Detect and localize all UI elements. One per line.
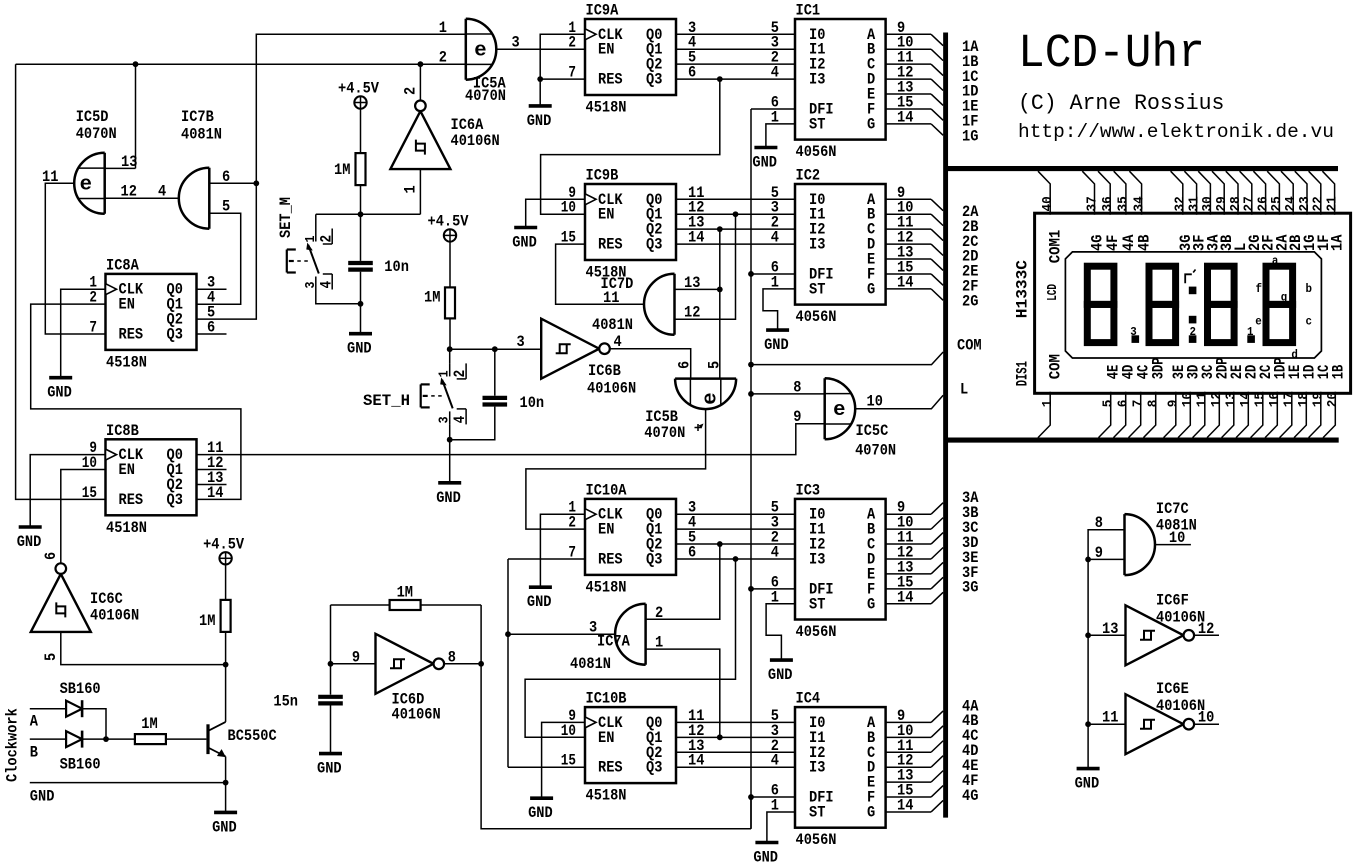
- LCD pin 1 COM bottom wire: [1038, 392, 1050, 438]
- svg-text:GND: GND: [753, 849, 778, 864]
- svg-text:g: g: [1281, 291, 1288, 305]
- LCD top pin 26 wire (2F): [1253, 171, 1265, 215]
- svg-text:17: 17: [1283, 392, 1298, 407]
- svg-text:1G: 1G: [962, 127, 978, 145]
- wire IC7B input 5 to IC8A.Q1: [197, 213, 241, 304]
- wire IC7C inputs tied to gnd chain: [1088, 530, 1124, 769]
- wire IC8A.CLK pin1 to GND: [61, 289, 106, 378]
- LCD decimal point dots: [1132, 335, 1140, 343]
- wire IC10B.CLK to GND: [542, 722, 585, 798]
- svg-text:3: 3: [512, 34, 520, 52]
- IC IC10A 4518N counter box: [585, 499, 676, 575]
- svg-text:11: 11: [1196, 392, 1211, 407]
- svg-text:Q3: Q3: [646, 759, 662, 777]
- svg-text:I3: I3: [809, 71, 825, 89]
- LCD top pin 24 wire (2B): [1281, 171, 1293, 215]
- svg-text:10: 10: [561, 722, 576, 740]
- LCD bottom pin 8 wire (3DP): [1144, 392, 1156, 438]
- svg-text:GND: GND: [436, 489, 461, 507]
- display bus top horizontal: [946, 166, 1338, 171]
- svg-text:G: G: [867, 115, 875, 133]
- svg-text:40106N: 40106N: [392, 706, 441, 724]
- svg-text:SB160: SB160: [60, 680, 101, 698]
- svg-text:Q3: Q3: [646, 550, 662, 568]
- capacitor C2 10n: [494, 349, 496, 396]
- wire IC5C input 9 (from IC8B.Q0 long wire): [796, 423, 825, 425]
- svg-text:6: 6: [676, 361, 694, 369]
- wire IC8B.Q0 pin11 long wire to IC5C.9: [197, 424, 825, 455]
- svg-text:EN: EN: [598, 521, 614, 539]
- ground transistor emitter: [214, 811, 237, 815]
- switch SET_H: [449, 349, 451, 363]
- svg-text:4070N: 4070N: [76, 125, 117, 143]
- junction IC10A.Q2 to IC7A.2: [717, 541, 723, 547]
- svg-text:a: a: [1272, 254, 1279, 268]
- IC6E output stub pin10: [1194, 723, 1219, 725]
- svg-text:GND: GND: [47, 384, 72, 402]
- LCD bottom pin 11 wire (3C): [1193, 392, 1205, 438]
- junction emitter/gnd-row: [223, 780, 229, 786]
- svg-text:4: 4: [771, 64, 779, 82]
- wire IC7A input 1 from IC10B.Q1: [646, 649, 720, 737]
- resistor R3 1M base resistor: [135, 734, 166, 744]
- svg-text:2: 2: [568, 34, 576, 52]
- wire IC5A.1 to IC8A.Q2 vertical: [197, 34, 466, 319]
- junction IC3.DFI: [748, 586, 754, 592]
- LCD top pin 23 wire (1G): [1295, 171, 1307, 215]
- svg-text:RES: RES: [119, 325, 144, 343]
- svg-text:3DP: 3DP: [1150, 357, 1168, 379]
- junction IC9A.Q3 branch to IC9B.EN: [717, 76, 723, 82]
- svg-text:EN: EN: [598, 206, 614, 224]
- wire IC5D input 12 / IC7B output 4: [105, 197, 179, 199]
- svg-text:e: e: [1255, 315, 1262, 329]
- LCD digit 4: [1266, 266, 1293, 304]
- AND gate IC7B 4081N (mirrored): [179, 168, 210, 229]
- wires IC10A.Q to IC3.I: [676, 513, 795, 515]
- svg-text:4070N: 4070N: [644, 424, 685, 442]
- svg-text:IC10B: IC10B: [586, 690, 627, 708]
- Schmitt inverter IC6E 40106N: [1126, 694, 1184, 754]
- svg-text:8: 8: [1095, 514, 1103, 532]
- wire IC9B.RES from IC7D output 11: [556, 244, 644, 304]
- LCD L mark near colon: [1185, 274, 1192, 283]
- LCD top pin 37 wire (4G): [1082, 171, 1094, 215]
- svg-text:I3: I3: [809, 759, 825, 777]
- wire IC5B output to IC10A.EN: [526, 409, 706, 529]
- wire IC10A.Q2 branch to IC7A.2: [646, 544, 720, 619]
- wire IC8B.CLK pin9 to GND: [30, 455, 105, 527]
- svg-text:COM: COM: [957, 337, 982, 355]
- wire IC6A output up: [419, 64, 421, 100]
- LCD bottom pin 12 wire (2DP): [1207, 392, 1219, 438]
- wires IC9A.Q to IC1.I: [676, 33, 795, 35]
- IC IC8A 4518N counter box: [106, 274, 197, 350]
- svg-text:4518N: 4518N: [586, 578, 627, 596]
- svg-text:GND: GND: [527, 593, 552, 611]
- junction IC9B.Q2 to IC7D.13: [717, 226, 723, 232]
- svg-text:22: 22: [1312, 196, 1327, 211]
- svg-text:G: G: [867, 803, 875, 821]
- svg-text:+4.5V: +4.5V: [203, 535, 245, 553]
- svg-text:12: 12: [121, 183, 137, 201]
- svg-text:6: 6: [42, 552, 60, 560]
- svg-text:20: 20: [1326, 392, 1341, 407]
- junction IC6E input: [1085, 721, 1091, 727]
- wire COM from DFI bus to display bus: [751, 352, 943, 365]
- svg-text:Q3: Q3: [167, 325, 183, 343]
- svg-text:IC9B: IC9B: [586, 167, 619, 185]
- svg-text:IC6F: IC6F: [1156, 591, 1189, 609]
- junction collector node: [223, 662, 229, 668]
- LCD colon dots: [1189, 287, 1197, 295]
- wire SET_H to GND: [449, 440, 451, 483]
- svg-text:e: e: [700, 392, 723, 404]
- svg-text:+4.5V: +4.5V: [428, 212, 470, 230]
- svg-text:COM1: COM1: [1046, 230, 1064, 264]
- wire IC9B.Q1 branch to IC7D.12: [675, 214, 736, 319]
- svg-text:12: 12: [1198, 620, 1214, 638]
- LCD display window: [1065, 252, 1321, 358]
- svg-text:ST: ST: [809, 595, 825, 613]
- wire SET_M node row: [316, 213, 421, 215]
- Schmitt inverter IC6D 40106N: [376, 634, 434, 694]
- svg-text:1: 1: [439, 19, 447, 37]
- svg-text:1M: 1M: [141, 715, 157, 733]
- svg-text:L: L: [960, 381, 968, 399]
- LCD bottom pin 14 wire (2D): [1236, 392, 1248, 438]
- junction DFI/IC5C.8: [748, 391, 754, 397]
- junction on net at IC5D.13 branch: [133, 61, 139, 67]
- IC IC4 4056N LCD decoder box: [795, 707, 886, 828]
- wire IC8A.EN pin2 from IC8B.Q3: [31, 304, 241, 499]
- svg-text:12: 12: [684, 304, 700, 322]
- svg-text:e: e: [474, 39, 486, 62]
- svg-text:IC7B: IC7B: [181, 108, 214, 126]
- svg-text:10: 10: [1181, 392, 1196, 407]
- svg-text:13: 13: [1102, 620, 1118, 638]
- junction below cap: [358, 301, 364, 307]
- IC6F output stub pin12: [1194, 634, 1219, 636]
- svg-text:GND: GND: [212, 818, 237, 836]
- svg-text:+4.5V: +4.5V: [338, 80, 380, 98]
- svg-text:2: 2: [1190, 325, 1197, 339]
- svg-text:9: 9: [1095, 544, 1103, 562]
- svg-text:2: 2: [317, 235, 335, 243]
- svg-text:4070N: 4070N: [465, 87, 506, 105]
- svg-text:40: 40: [1041, 196, 1056, 211]
- svg-text:RES: RES: [119, 491, 144, 509]
- wire IC6C input from clockwork transistor collector: [61, 632, 226, 665]
- junction IC6D input: [328, 661, 334, 667]
- wires IC1 outputs to display bus 1A-1G: [886, 33, 932, 35]
- svg-text:1B: 1B: [1329, 365, 1347, 380]
- svg-text:I3: I3: [809, 550, 825, 568]
- svg-text:4: 4: [771, 543, 779, 561]
- svg-text:GND: GND: [528, 804, 553, 822]
- svg-text:7: 7: [568, 543, 576, 561]
- svg-text:IC5D: IC5D: [76, 108, 109, 126]
- svg-text:5: 5: [705, 361, 723, 369]
- svg-text:IC4: IC4: [796, 690, 821, 708]
- svg-text:14: 14: [897, 588, 913, 606]
- ground IC10A CLK: [529, 585, 552, 589]
- wires IC2 outputs to display bus 2A-2G: [886, 198, 932, 200]
- AND gate IC7A 4081N (mirrored): [615, 604, 646, 665]
- svg-text:IC7A: IC7A: [597, 633, 630, 651]
- wire IC3.ST to GND: [766, 604, 795, 660]
- wire IC10A.RES from IC7A output: [508, 558, 585, 560]
- ground unused-gate chain: [1077, 767, 1100, 771]
- wire SET_H node row to IC6B input: [450, 348, 542, 350]
- svg-text:1M: 1M: [424, 289, 440, 307]
- wire IC1.DFI to DFI bus: [751, 108, 795, 110]
- wire IC5A output 3 to IC9A.EN: [496, 48, 585, 50]
- ground IC8A: [49, 376, 72, 380]
- svg-text:IC2: IC2: [796, 167, 821, 185]
- IC IC10B 4518N counter box: [585, 707, 676, 783]
- svg-text:2: 2: [439, 49, 447, 67]
- wire IC5D output 11 to IC8A.RES: [45, 183, 105, 334]
- IC8B.Q2 stub pin13: [197, 483, 227, 485]
- ground IC9B CLK: [514, 226, 537, 230]
- svg-text:4518N: 4518N: [586, 787, 627, 805]
- svg-text:21: 21: [1325, 196, 1340, 211]
- svg-text:1: 1: [1247, 325, 1254, 339]
- svg-text:BC550C: BC550C: [228, 727, 277, 745]
- LCD digit 2: [1149, 266, 1176, 304]
- svg-text:25: 25: [1270, 196, 1285, 211]
- svg-text:5: 5: [222, 198, 230, 216]
- svg-text:5: 5: [1102, 400, 1117, 408]
- junction at IC6A output: [418, 61, 424, 67]
- svg-text:Q3: Q3: [646, 236, 662, 254]
- svg-text:10: 10: [1169, 529, 1185, 547]
- display bus bottom horizontal: [946, 438, 1339, 443]
- svg-text:ST: ST: [809, 115, 825, 133]
- svg-text:15: 15: [1254, 392, 1269, 407]
- svg-text:4: 4: [158, 183, 166, 201]
- ground IC8B CLK: [19, 525, 42, 529]
- svg-text:34: 34: [1132, 196, 1147, 211]
- svg-text:31: 31: [1187, 196, 1202, 211]
- LCD top pin 30 wire (3A): [1198, 171, 1210, 215]
- svg-text:1A: 1A: [1329, 234, 1347, 251]
- wire IC6A input down: [419, 169, 421, 214]
- AND gate IC7D 4081N (mirrored): [644, 274, 675, 335]
- svg-text:32: 32: [1174, 196, 1189, 211]
- IC IC2 4056N LCD decoder box: [795, 184, 886, 305]
- junction IC4.DFI: [748, 794, 754, 800]
- ground IC4 ST: [755, 841, 778, 845]
- svg-text:3: 3: [517, 333, 525, 351]
- IC IC8B 4518N counter box: [106, 439, 197, 515]
- svg-text:4056N: 4056N: [796, 623, 837, 641]
- wire IC10A.Q3 to IC10B.EN (detour): [525, 559, 735, 737]
- wire collector up: [225, 665, 227, 722]
- svg-text:10: 10: [561, 199, 576, 217]
- svg-text:1M: 1M: [199, 612, 215, 630]
- svg-text:40106N: 40106N: [90, 607, 139, 625]
- svg-text:37: 37: [1085, 196, 1100, 211]
- svg-text:IC6E: IC6E: [1156, 680, 1189, 698]
- svg-text:IC5C: IC5C: [856, 422, 889, 440]
- LCD bottom pin 17 wire (1E): [1280, 392, 1292, 438]
- Schmitt inverter IC6C 40106N: [31, 574, 91, 632]
- svg-text:GND: GND: [512, 234, 537, 252]
- wire emitter down to ground: [225, 757, 227, 813]
- svg-text:EN: EN: [598, 729, 614, 747]
- svg-text:3G: 3G: [962, 579, 978, 597]
- LCD bottom pin 9 wire (3E): [1164, 392, 1176, 438]
- svg-text:IC9A: IC9A: [586, 2, 619, 20]
- junction IC7A output node: [505, 631, 511, 637]
- svg-text:12: 12: [1210, 392, 1225, 407]
- svg-text:13: 13: [684, 274, 700, 292]
- svg-text:26: 26: [1256, 196, 1271, 211]
- LCD top pin 34 wire (4B): [1129, 171, 1141, 215]
- svg-text:4070N: 4070N: [855, 442, 896, 460]
- svg-text:GND: GND: [768, 666, 793, 684]
- transistor Q1 BC550C NPN: [206, 724, 209, 754]
- LCD pin 40 COM1 top wire: [1038, 171, 1050, 215]
- svg-text:SET_H: SET_H: [363, 392, 410, 410]
- svg-text:10: 10: [1198, 709, 1214, 727]
- svg-text:8: 8: [1147, 400, 1162, 408]
- svg-text:2: 2: [451, 370, 469, 378]
- wire IC9A.CLK+RES to GND: [540, 34, 585, 106]
- svg-text:GND: GND: [1075, 775, 1100, 793]
- svg-text:RES: RES: [598, 759, 623, 777]
- svg-text:I3: I3: [809, 236, 825, 254]
- svg-text:e: e: [80, 174, 92, 197]
- svg-text:3: 3: [1130, 325, 1137, 339]
- wire IC7B input 6: [209, 182, 256, 184]
- svg-text:GND: GND: [30, 788, 55, 806]
- svg-text:IC8B: IC8B: [106, 422, 139, 440]
- svg-text:10n: 10n: [520, 394, 545, 412]
- XOR gate IC5A 4070N: [466, 19, 497, 80]
- svg-text:EN: EN: [119, 461, 135, 479]
- junction CLK/RES gnd: [537, 76, 543, 82]
- svg-text:Q3: Q3: [646, 71, 662, 89]
- svg-text:EN: EN: [119, 296, 135, 314]
- power +4.5V SET_H: [444, 229, 456, 241]
- svg-text:H1333C: H1333C: [1014, 260, 1032, 318]
- junction DFI/COM: [748, 362, 754, 368]
- svg-text:IC8A: IC8A: [106, 256, 139, 274]
- LCD top pin 22 wire (1F): [1309, 171, 1321, 215]
- Schmitt inverter IC6F 40106N: [1126, 605, 1184, 665]
- switch SET_M: [315, 214, 317, 228]
- LCD bottom pin 5 wire (4E): [1099, 392, 1111, 438]
- svg-text:10: 10: [867, 393, 883, 411]
- svg-text:11: 11: [1102, 709, 1118, 727]
- svg-text:LCD: LCD: [1046, 284, 1061, 301]
- svg-text:2: 2: [89, 289, 97, 307]
- svg-text:1: 1: [1041, 400, 1056, 408]
- svg-text:IC7C: IC7C: [1156, 500, 1189, 518]
- svg-text:B: B: [30, 744, 38, 762]
- svg-text:4518N: 4518N: [106, 353, 147, 371]
- svg-text:9: 9: [1167, 400, 1182, 408]
- svg-text:6: 6: [1117, 400, 1132, 408]
- LCD bottom pin 18 wire (1D): [1294, 392, 1306, 438]
- svg-text:6: 6: [222, 168, 230, 186]
- svg-text:4056N: 4056N: [796, 831, 837, 849]
- svg-text:15: 15: [82, 484, 97, 502]
- LCD bottom pin 19 wire (1C): [1309, 392, 1321, 438]
- svg-text:13: 13: [1225, 392, 1240, 407]
- svg-text:13: 13: [121, 153, 137, 171]
- svg-text:23: 23: [1298, 196, 1313, 211]
- svg-text:COM: COM: [1046, 354, 1064, 379]
- LCD digit 1 (all segments): [1087, 266, 1114, 304]
- svg-text:7: 7: [568, 64, 576, 82]
- svg-text:4: 4: [317, 281, 335, 289]
- svg-text:RES: RES: [598, 236, 623, 254]
- svg-text:11: 11: [603, 289, 619, 307]
- svg-text:14: 14: [207, 484, 223, 502]
- ground SET_H: [438, 481, 461, 485]
- ground IC1 ST: [754, 146, 777, 150]
- ground IC2 ST: [766, 328, 789, 332]
- resistor R4 1M collector pullup: [225, 632, 227, 665]
- LCD top pin 28 wire (L): [1226, 171, 1238, 215]
- wire IC7A output to IC10A.RES and IC10B.RES: [508, 633, 615, 635]
- svg-text:15n: 15n: [273, 693, 298, 711]
- svg-text:Q3: Q3: [167, 491, 183, 509]
- svg-text:2: 2: [568, 514, 576, 532]
- wire IC6E input: [1088, 723, 1125, 725]
- svg-text:IC10A: IC10A: [586, 481, 628, 499]
- svg-text:14: 14: [897, 796, 913, 814]
- capacitor C1 10n: [360, 214, 362, 261]
- wire IC2.ST to GND: [763, 289, 795, 330]
- LCD module DIS1 outline: [1035, 213, 1351, 393]
- wire IC5D input 13: [105, 167, 136, 169]
- svg-text:7: 7: [89, 318, 97, 336]
- wire IC9B.CLK to GND: [526, 199, 585, 227]
- wire IC9B.Q2 branch down to IC7D.13 and IC5B.5: [719, 229, 721, 378]
- svg-text:10n: 10n: [384, 258, 409, 276]
- LCD bottom pin 20 wire (1B): [1323, 392, 1335, 438]
- svg-text:8: 8: [793, 378, 801, 396]
- LCD bottom pin 16 wire (1DP): [1265, 392, 1277, 438]
- svg-text:15: 15: [561, 752, 576, 770]
- svg-text:14: 14: [1239, 392, 1254, 407]
- IC8A.Q3 stub pin6: [197, 333, 227, 335]
- wires IC3 outputs to display bus 3A-3G: [886, 513, 932, 515]
- svg-text:ST: ST: [809, 803, 825, 821]
- svg-text:e: e: [833, 399, 845, 422]
- ground IC9A: [529, 104, 552, 108]
- svg-text:4G: 4G: [962, 787, 978, 805]
- svg-text:RES: RES: [598, 550, 623, 568]
- svg-text:4: 4: [771, 229, 779, 247]
- wire IC5C input 8 from DFI bus: [751, 393, 825, 395]
- LCD bottom pin 6 wire (4D): [1114, 392, 1126, 438]
- svg-text:5: 5: [42, 653, 60, 661]
- svg-text:GND: GND: [764, 336, 789, 354]
- svg-text:24: 24: [1284, 196, 1299, 211]
- power +4.5V SET_M: [354, 96, 366, 108]
- svg-text:http://www.elektronik.de.vu: http://www.elektronik.de.vu: [1018, 121, 1334, 143]
- LCD bottom pin 7 wire (4C): [1129, 392, 1141, 438]
- junction IC7D.13 tap: [717, 287, 723, 293]
- svg-text:SB160: SB160: [60, 755, 101, 773]
- svg-text:GND: GND: [17, 533, 42, 551]
